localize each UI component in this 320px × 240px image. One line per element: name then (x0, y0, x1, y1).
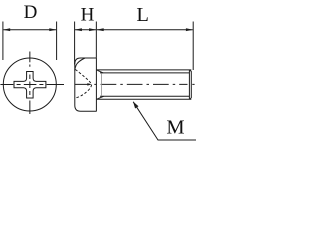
recess side view: hidden arc (dashed) (75, 70, 91, 99)
svg-text:H: H (81, 5, 95, 26)
front view horizontal centerline (dash-dot) (0, 84, 64, 86)
dimension H / L shared extension line (95, 22, 97, 58)
shaft outline: top edge (96, 69, 191, 71)
recess cone apex arrow (87, 83, 92, 86)
svg-text:D: D (24, 2, 38, 23)
leader arrowhead (133, 102, 139, 109)
leader line to thread (133, 102, 196, 140)
shaft end face (190, 70, 192, 99)
dimension H line (75, 29, 96, 31)
dimension L extension line right (192, 22, 194, 71)
dimension D extension line right (56, 22, 58, 61)
dimension L arrow left (96, 28, 103, 31)
dimension D line (3, 29, 56, 31)
svg-text:M: M (166, 117, 184, 139)
side view: pan head outline (75, 58, 97, 111)
svg-text:L: L (136, 4, 149, 26)
dimension H arrow left (75, 28, 82, 31)
thread runout top diagonal (97, 70, 103, 73)
dimension L arrow right (186, 28, 193, 31)
phillips recess front view: cross slot outline (14, 72, 46, 99)
side view: head right edge / flange line (95, 58, 97, 112)
thread minor line top (100, 72, 189, 74)
thread runout bottom diagonal (97, 96, 103, 99)
dimension D arrow right (49, 28, 56, 31)
dimension D arrow left (3, 28, 10, 31)
thread runout vertical (light) (101, 73, 103, 96)
shaft end chamfer line (188, 70, 190, 99)
dimension L line (97, 29, 193, 31)
screw head front view: outline circle (3, 58, 56, 111)
front view vertical centerline (dash-dot) (29, 52, 31, 115)
dimension H extension line left (74, 22, 76, 65)
screw axis centerline (dash-dot) (75, 83, 195, 85)
shaft outline: bottom edge (96, 98, 191, 100)
dimension H arrow right (89, 28, 96, 31)
recess side view: visible arc (solid) (75, 58, 85, 71)
thread minor line bottom (100, 95, 189, 97)
dimension D extension line left (2, 22, 4, 61)
